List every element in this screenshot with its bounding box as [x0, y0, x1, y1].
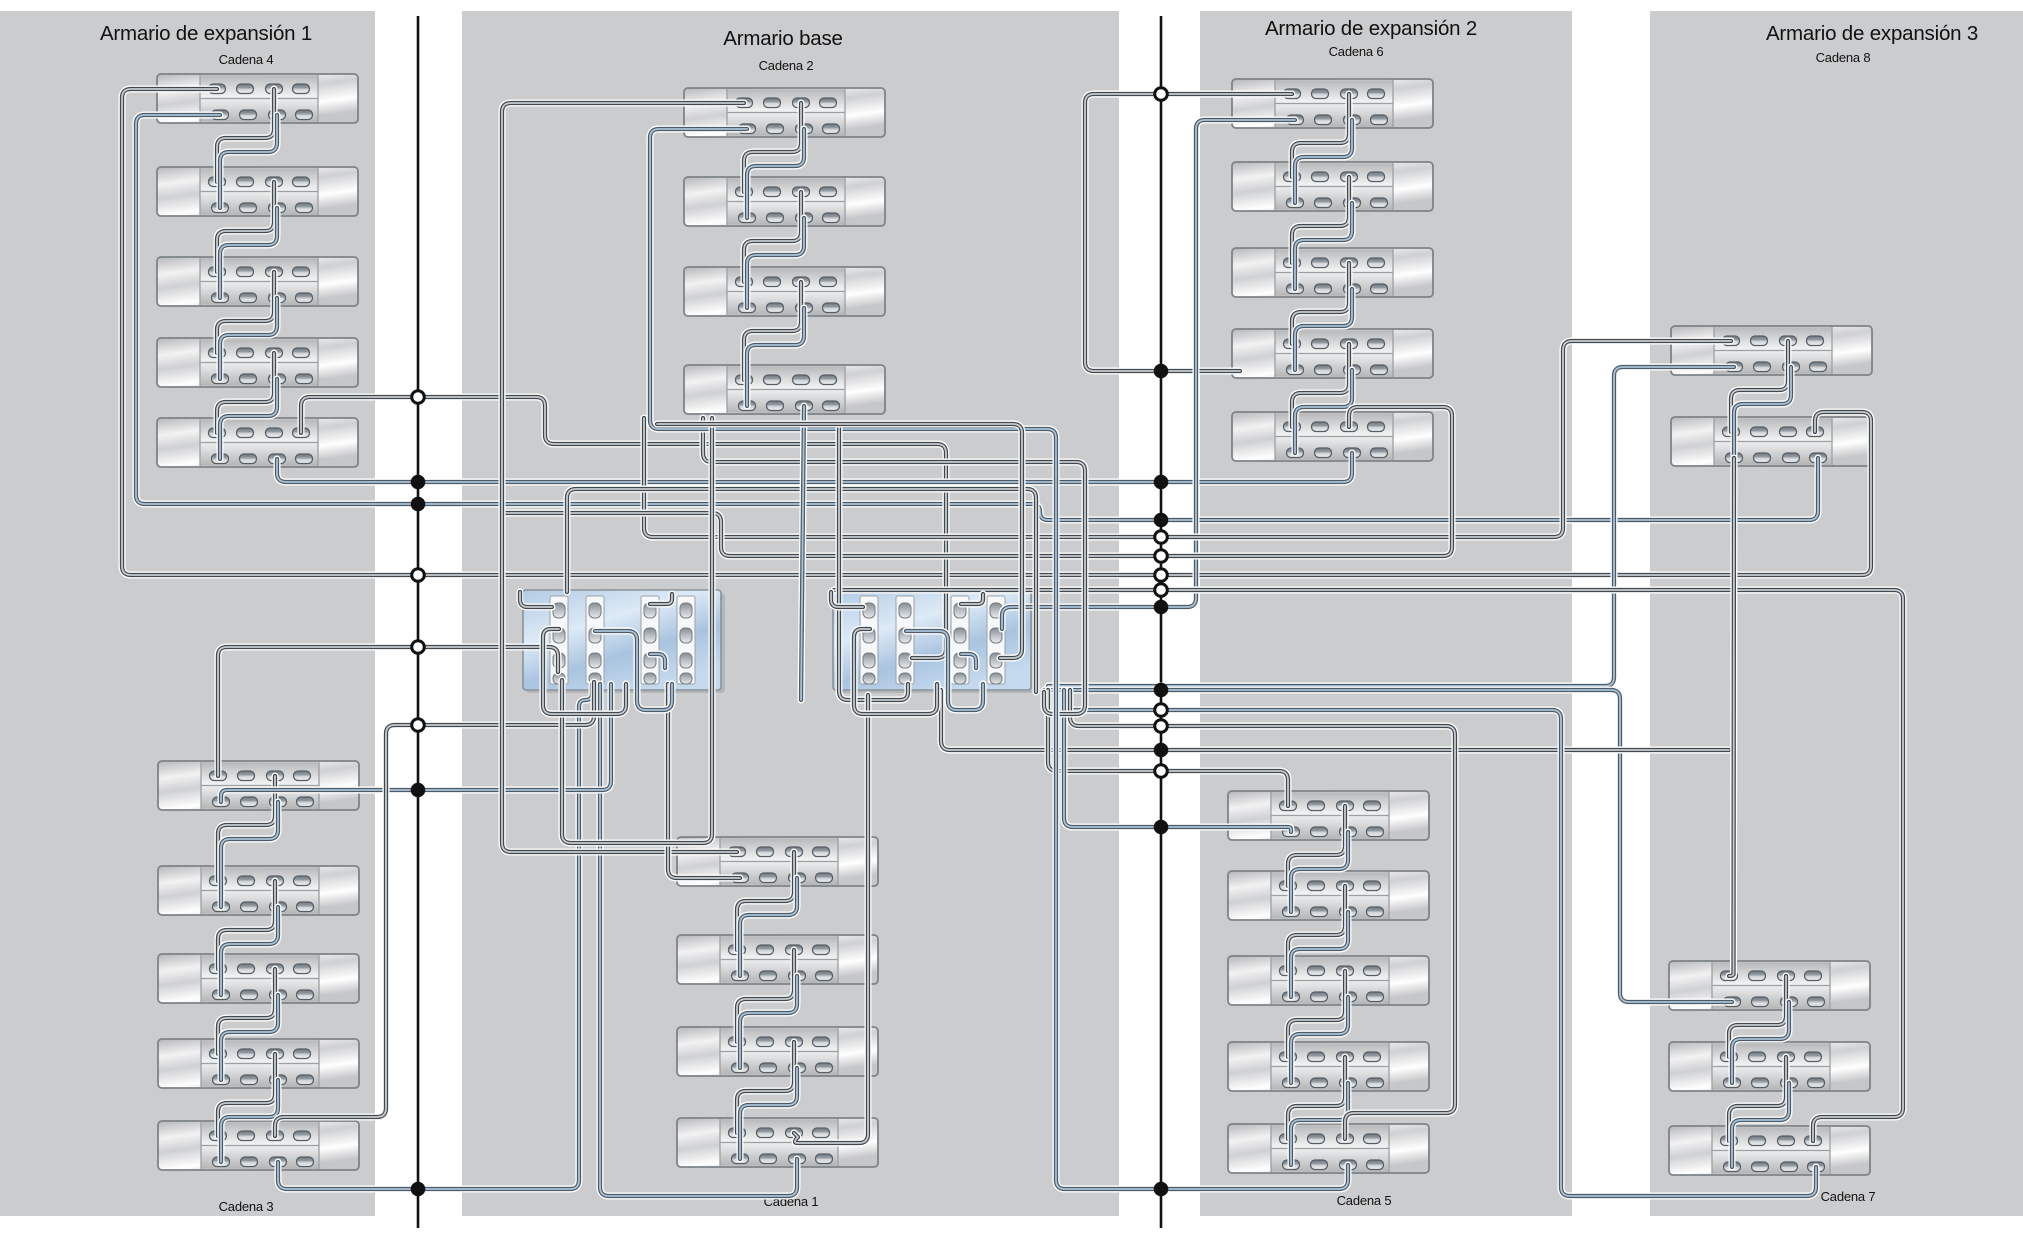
wire chain C7 shelf2-r1p3 to shelf3-r1p1 [1729, 1057, 1786, 1141]
wire chain C1 shelf1-r1p3 to shelf2-r1p1 [737, 852, 794, 950]
wire to cadena5 shelf5 r1p3 via y726 [1070, 690, 1455, 1139]
wire chain C7 shelf1-r1p3 to shelf2-r1p1 [1729, 976, 1786, 1057]
crossing node at line x=1161 y=590 [1155, 584, 1168, 597]
controller U2 [833, 590, 1035, 693]
wire controller U1 to cadena3 shelf5 r1p3 via y725 [275, 682, 594, 1136]
wire cadena2 shelf1 r1p1 down left side to cadena1 shelf1 r1p1 [502, 103, 744, 852]
wire chain C3 shelf2-r2p3 to shelf3-r2p1 [221, 907, 278, 995]
wire hook controller U2 slot1 p1 [831, 592, 863, 607]
wire chain C3 shelf3-r1p3 to shelf4-r1p1 [218, 969, 275, 1054]
wire chain C2 shelf3-r1p3 to shelf4-r1p1 [744, 282, 801, 380]
wire armario base to cadena6 shelf5 r1p3 via y556 [502, 407, 1452, 556]
wire chain C2 shelf1-r1p3 to shelf2-r1p1 [744, 103, 801, 192]
disk shelf C3 #5 [158, 1121, 359, 1170]
crossing node at line x=1161 y=575 [1155, 569, 1168, 582]
crossing node at line x=1161 y=556 [1155, 550, 1168, 563]
panel armario 3 background [1200, 11, 1572, 1216]
disk shelf C2 #2 [684, 177, 885, 226]
wire armario base chain via y462 to controller U2 [703, 418, 1085, 714]
disk shelf C6 #4 [1232, 329, 1433, 378]
wire chain C1 shelf3-r1p3 to shelf4-r1p1 [737, 1042, 794, 1133]
wire chain C4 shelf1-r2p3 to shelf2-r2p1 [220, 115, 277, 208]
junction at line x=1161 y=371 [1154, 364, 1169, 379]
wire chain C6 shelf1-r2p3 to shelf2-r2p1 [1295, 120, 1352, 203]
wire chain C4 shelf3-r2p3 to shelf4-r2p1 [220, 298, 277, 379]
disk shelf C5 #5 [1228, 1124, 1429, 1173]
svg-text:Cadena 8: Cadena 8 [1816, 50, 1871, 65]
svg-text:Armario de expansión 3: Armario de expansión 3 [1766, 22, 1978, 45]
wire chain C3 shelf2-r1p3 to shelf3-r1p1 [218, 881, 275, 969]
junction at line x=418 y=504 [411, 497, 426, 512]
crossing node at line x=418 y=725 [412, 719, 425, 732]
disk shelf C5 #1 [1228, 791, 1429, 840]
disk shelf C5 #2 [1228, 871, 1429, 920]
disk shelf C8 #1 [1671, 326, 1872, 375]
disk shelf C8 #2 [1671, 417, 1872, 466]
crossing node at line x=418 y=647 [412, 641, 425, 654]
disk shelf C4 #5 [157, 418, 358, 467]
junction at line x=418 y=482 [411, 475, 426, 490]
crossing node at line x=1161 y=537 [1155, 531, 1168, 544]
junction at line x=1161 y=607 [1154, 600, 1169, 615]
wire chain C5 shelf4-r1p3 to shelf5-r1p1 [1288, 1057, 1345, 1139]
wire chain C6 shelf2-r2p3 to shelf3-r2p1 [1295, 203, 1352, 289]
disk shelf C4 #3 [157, 257, 358, 306]
wire chain C6 shelf4-r2p3 to shelf5-r2p1 [1295, 370, 1352, 453]
junction at line x=1161 y=750 [1154, 743, 1169, 758]
wire controller U1 to cadena3 shelf1 r2p1 via y790 [221, 684, 611, 802]
crossing node at line x=1161 y=726 [1155, 720, 1168, 733]
wire hook controller U1 slot2 p2 to nest [595, 631, 672, 710]
rack boundary line 2 [1160, 16, 1163, 1228]
wire cadena3 shelf5 r2p3 to controller U1 via y1189 [278, 684, 592, 1189]
disk shelf C1 #2 [677, 935, 878, 984]
wire chain C3 shelf1-r2p3 to shelf2-r2p1 [221, 802, 278, 907]
wire chain C2 shelf1-r2p3 to shelf2-r2p1 [747, 129, 804, 218]
wire cadena1 shelf4 r2p3 to controller U1 via y1196 [600, 684, 797, 1196]
wire chain C5 shelf4-r2p3 to shelf5-r2p1 [1291, 1083, 1348, 1165]
wire controller U2 to cadena8 shelf1 r2p1 via y686 [1048, 367, 1734, 686]
svg-text:Armario base: Armario base [723, 27, 843, 50]
wire chain C3 shelf4-r1p3 to shelf5-r1p1 [218, 1054, 275, 1136]
junction at line x=1161 y=482 [1154, 475, 1169, 490]
junction at line x=1161 y=690 [1154, 683, 1169, 698]
wire chain C5 shelf2-r1p3 to shelf3-r1p1 [1288, 886, 1345, 971]
wire chain C4 shelf1-r1p3 to shelf2-r1p1 [217, 89, 274, 182]
wire nest under controller U2 slot1 [839, 426, 908, 700]
wire controller U2 to cadena5 shelf1 r2p1 via y827 [1064, 690, 1291, 832]
svg-text:Armario de expansión 1: Armario de expansión 1 [100, 22, 312, 45]
disk shelf C3 #1 [158, 761, 359, 810]
wire chain C7 shelf2-r2p3 to shelf3-r2p1 [1732, 1083, 1789, 1167]
junction at line x=1161 y=827 [1154, 820, 1169, 835]
wire controller U1 to cadena3 shelf1 r1p1 via y647 [218, 647, 558, 776]
disk shelf C1 #4 [677, 1118, 878, 1167]
wire chain C6 shelf3-r1p3 to shelf4-r1p1 [1292, 263, 1349, 344]
wire chain C3 shelf4-r2p3 to shelf5-r2p1 [221, 1080, 278, 1162]
wire controller U1 to cadena1 shelf1 r2p1 [668, 684, 740, 878]
svg-text:Cadena 6: Cadena 6 [1329, 44, 1384, 59]
rack boundary line 1 [417, 16, 420, 1228]
wire cadena4 shelf5 r2p3 to cadena6 shelf5 r2p3 via y482 [277, 453, 1352, 482]
wire chain C5 shelf2-r2p3 to shelf3-r2p1 [1291, 912, 1348, 997]
disk shelf C2 #4 [684, 365, 885, 414]
wire hook controller U2 slot1 p2 to nest [854, 629, 937, 714]
wire hook controller U1 slot1 p2 to nest [543, 629, 626, 714]
wire controller U2 to cadena7 shelf1 r2p1 via y690 [1044, 690, 1732, 1002]
wire controller U2 to cadena5 shelf1 r1p1 via y771 [1048, 690, 1288, 806]
wire cadena6 shelf1 r1p1 via y89 and y371 [1085, 94, 1292, 371]
wire to cadena1 shelf4 r1p3 wrap [794, 695, 868, 1143]
wire chain C7 shelf1-r2p3 to shelf2-r2p1 [1732, 1002, 1789, 1083]
disk shelf C1 #1 [677, 837, 878, 886]
disk shelf C2 #3 [684, 267, 885, 316]
wire chain C3 shelf3-r2p3 to shelf4-r2p1 [221, 995, 278, 1080]
wire chain C6 shelf2-r1p3 to shelf3-r1p1 [1292, 177, 1349, 263]
junction at line x=418 y=790 [411, 783, 426, 798]
disk shelf C6 #1 [1232, 79, 1433, 128]
wire chain C5 shelf1-r2p3 to shelf2-r2p1 [1291, 832, 1348, 912]
disk shelf C3 #4 [158, 1039, 359, 1088]
wire armario base chain to controller U2 slot4 via y424 [657, 424, 1022, 658]
wire cadena8 shelf2 r2p1 to cadena7 shelf1 r1p1 [1729, 458, 1734, 976]
wire chain C2 shelf2-r2p3 to shelf3-r2p1 [747, 218, 804, 308]
crossing node at line x=418 y=575 [412, 569, 425, 582]
wire chain C1 shelf2-r1p3 to shelf3-r1p1 [737, 950, 794, 1042]
wire chain C8 shelf1-r2p3 to shelf2-r2p1 [1734, 367, 1791, 458]
svg-text:Cadena 2: Cadena 2 [759, 58, 814, 73]
crossing node at line x=1161 y=771 [1155, 765, 1168, 778]
disk shelf C2 #1 [684, 88, 885, 137]
disk shelf C6 #2 [1232, 162, 1433, 211]
svg-text:Cadena 5: Cadena 5 [1337, 1193, 1392, 1208]
disk shelf C4 #4 [157, 338, 358, 387]
junction at line x=1161 y=1189 [1154, 1182, 1169, 1197]
wire chain C6 shelf3-r2p3 to shelf4-r2p1 [1295, 289, 1352, 370]
wire hook controller U1 slot1 p1 [520, 592, 552, 607]
svg-text:Cadena 7: Cadena 7 [1821, 1189, 1876, 1204]
wire hook controller U2 slot3 p1 [961, 594, 983, 604]
wire chain C2 shelf3-r2p3 to shelf4-r2p1 [747, 308, 804, 406]
svg-text:Cadena 3: Cadena 3 [219, 1199, 274, 1214]
disk shelf C6 #3 [1232, 248, 1433, 297]
wire controller U2 to armario4 via y750 [941, 690, 1729, 750]
wire hook controller U1 slot3 p1 [650, 594, 672, 604]
wire chain C1 shelf2-r2p3 to shelf3-r2p1 [740, 976, 797, 1068]
panel armario 2 background [462, 11, 1119, 1216]
wire chain C2 shelf2-r1p3 to shelf3-r1p1 [744, 192, 801, 282]
wire controller U1 to controller U2 via y489 [567, 489, 1036, 692]
wire cadena2 shelf4 r2p3 down [801, 406, 804, 700]
wire controller U2 to cadena7 shelf3 r1p4 via y590 [834, 590, 1903, 1141]
wire chain C5 shelf3-r1p3 to shelf4-r1p1 [1288, 971, 1345, 1057]
wire controller U2 to cadena6 shelf1 r2p1 via y607 [1002, 120, 1295, 629]
wire hook controller U2 slot3 p3 [961, 654, 976, 668]
crossing node at line x=418 y=397 [412, 391, 425, 404]
disk shelf C6 #5 [1232, 412, 1433, 461]
wire cadena4 shelf1 r1p1 to cadena8 shelf2 r1p4 via y575 [122, 89, 1871, 575]
wire hook controller U2 slot2 p2 to nest [906, 631, 983, 710]
panel armario 4 background [1650, 11, 2023, 1216]
controller U1 [523, 590, 725, 693]
wire chain C5 shelf1-r1p3 to shelf2-r1p1 [1288, 806, 1345, 886]
wire nest under controller U1 [562, 418, 712, 843]
wire cadena7 shelf3 r2p4 return via y710 [1070, 710, 1816, 1196]
wire chain C4 shelf3-r1p3 to shelf4-r1p1 [217, 272, 274, 353]
crossing node at line x=1161 y=710 [1155, 704, 1168, 717]
junction at line x=1161 y=520 [1154, 513, 1169, 528]
svg-text:Armario de expansión 2: Armario de expansión 2 [1265, 17, 1477, 40]
wire chain C4 shelf4-r1p3 to shelf5-r1p1 [217, 353, 274, 433]
wire cadena2 shelf1 r2p1 via y429 to cadena5 shelf5 r2p3 via y1189 [650, 129, 1348, 1189]
wire chain C8 shelf1-r1p3 to shelf2-r1p1 [1731, 341, 1788, 432]
wire chain C3 shelf1-r1p3 to shelf2-r1p1 [218, 776, 275, 881]
wire chain C4 shelf2-r2p3 to shelf3-r2p1 [220, 208, 277, 298]
disk shelf C5 #3 [1228, 956, 1429, 1005]
disk shelf C5 #4 [1228, 1042, 1429, 1091]
disk shelf C7 #1 [1669, 961, 1870, 1010]
disk shelf C4 #2 [157, 167, 358, 216]
wire chain C1 shelf3-r2p3 to shelf4-r2p1 [740, 1068, 797, 1159]
disk shelf C7 #3 [1669, 1126, 1870, 1175]
panel armario 1 background [0, 11, 375, 1216]
crossing node at line x=1161 y=94 [1155, 88, 1168, 101]
wire chain C6 shelf4-r1p3 to shelf5-r1p1 [1292, 344, 1349, 427]
disk shelf C1 #3 [677, 1027, 878, 1076]
wire chain C6 shelf1-r1p3 to shelf2-r1p1 [1292, 94, 1349, 177]
wire cadena4 shelf5 r1p4 to controller U2 via y397 [301, 397, 946, 658]
wire chain C4 shelf4-r2p3 to shelf5-r2p1 [220, 379, 277, 459]
wire chain C1 shelf1-r2p3 to shelf2-r2p1 [740, 878, 797, 976]
wire chain C5 shelf3-r2p3 to shelf4-r2p1 [1291, 997, 1348, 1083]
wire hook controller U1 slot3 p3 [650, 654, 665, 668]
wire cadena4 shelf1 r2p1 to cadena8 shelf2 r2p4 via y504 [136, 115, 1818, 520]
disk shelf C4 #1 [157, 74, 358, 123]
disk shelf C3 #3 [158, 954, 359, 1003]
svg-text:Cadena 4: Cadena 4 [219, 52, 274, 67]
wire chain C4 shelf2-r1p3 to shelf3-r1p1 [217, 182, 274, 272]
disk shelf C3 #2 [158, 866, 359, 915]
wire armario base to cadena8 shelf1 r1p1 via y537 [644, 341, 1731, 537]
disk shelf C7 #2 [1669, 1042, 1870, 1091]
junction at line x=418 y=1189 [411, 1182, 426, 1197]
